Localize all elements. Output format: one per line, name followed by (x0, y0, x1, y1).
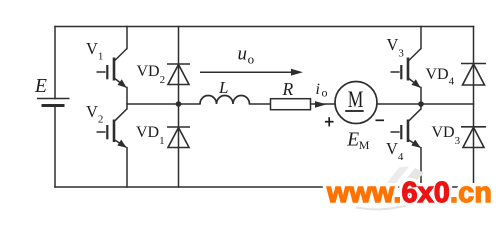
diode VD4 (461, 64, 486, 86)
wire right rail (473, 27, 475, 188)
svg-text:o: o (322, 86, 328, 100)
wire load between L and R (250, 103, 271, 105)
wire V3V4 leg middle (420, 88, 422, 109)
svg-text:www.6x0.cn: www.6x0.cn (326, 177, 492, 209)
svg-text:M: M (359, 138, 370, 152)
wire bottom bus (55, 186, 474, 188)
diode VD1 (167, 127, 190, 148)
battery E plate short (42, 104, 65, 107)
wire left rail upper (54, 27, 56, 99)
diode VD3 (461, 127, 486, 148)
svg-text:u: u (238, 44, 248, 65)
arrow u_o (200, 69, 303, 76)
inductor L (200, 96, 250, 105)
svg-text:R: R (282, 79, 294, 99)
wire left rail lower (54, 106, 56, 188)
svg-text:o: o (248, 52, 255, 67)
wire V1V2 leg lower (126, 148, 128, 187)
watermark gray logo (386, 167, 409, 185)
svg-text:E: E (34, 76, 47, 97)
transistor V1 (97, 49, 128, 88)
wire V1V2 leg middle (126, 88, 128, 109)
wire load left (127, 103, 200, 105)
transistor V2 (97, 109, 128, 148)
wire V3V4 leg lower (420, 148, 422, 187)
node junction left midpoint (176, 101, 182, 107)
svg-text:E: E (346, 129, 359, 150)
wire load right (377, 103, 474, 105)
watermark swoosh (356, 206, 406, 210)
wire VD1VD2 leg (178, 27, 180, 188)
svg-text:i: i (316, 81, 320, 98)
arrow i_o (315, 101, 327, 108)
wire load between R and motor (311, 103, 336, 105)
transistor V4 (391, 109, 422, 148)
battery E plate long (37, 98, 70, 100)
wire V1V2 leg upper (126, 27, 128, 49)
svg-text:M: M (348, 87, 364, 112)
motor M (335, 82, 377, 124)
resistor R (271, 99, 311, 110)
diode VD2 (167, 64, 190, 85)
wire top bus (55, 26, 474, 28)
svg-text:L: L (218, 78, 228, 97)
label minus (376, 119, 385, 121)
label plus (325, 117, 334, 126)
node junction right midpoint (418, 101, 424, 107)
wire V3V4 leg upper (420, 27, 422, 49)
transistor V3 (391, 49, 422, 88)
